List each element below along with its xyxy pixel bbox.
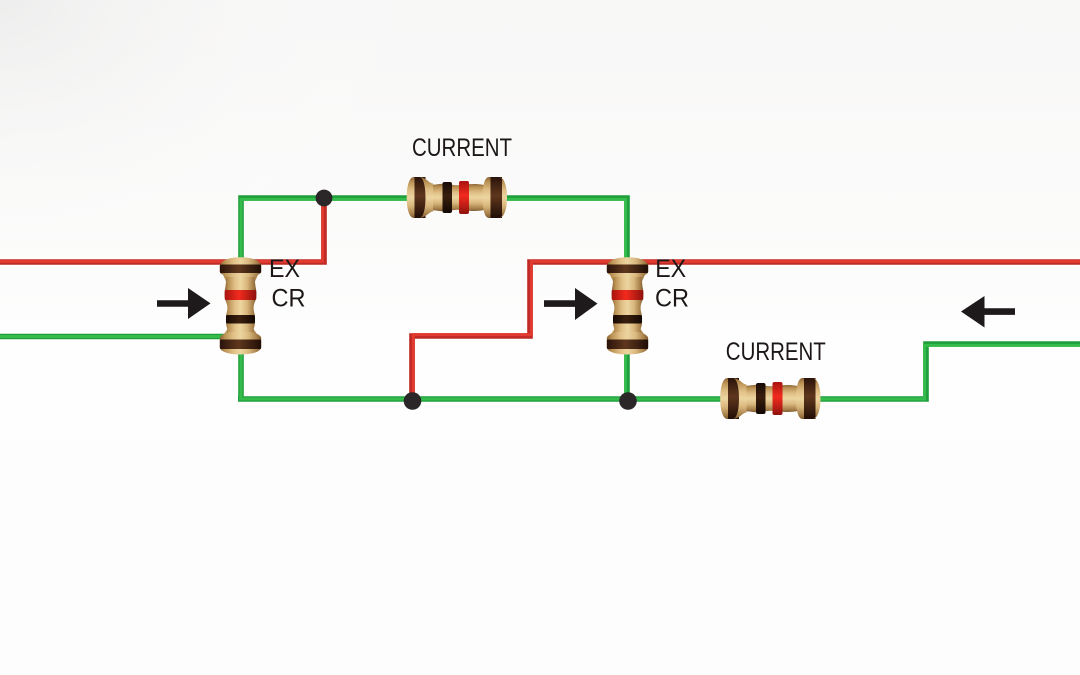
svg-text:CURRENT: CURRENT bbox=[412, 134, 512, 162]
svg-text:EX: EX bbox=[269, 255, 300, 283]
svg-text:CR: CR bbox=[655, 285, 689, 313]
svg-text:EX: EX bbox=[655, 255, 686, 283]
svg-text:CR: CR bbox=[272, 285, 306, 313]
svg-text:CURRENT: CURRENT bbox=[726, 338, 826, 366]
